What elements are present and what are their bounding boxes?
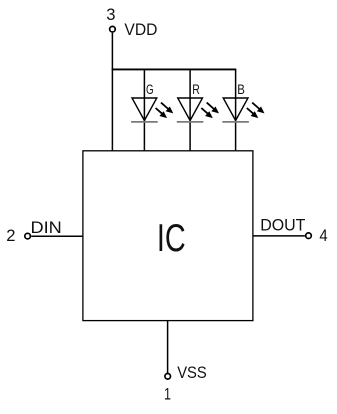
cathode bar R [177, 121, 204, 123]
svg-text:VDD: VDD [124, 20, 157, 39]
diode triangle G anode [132, 98, 157, 121]
svg-text:B: B [237, 82, 245, 98]
LED G [131, 82, 173, 122]
light arrow G2 [156, 108, 168, 118]
svg-text:VSS: VSS [177, 363, 207, 382]
svg-text:DOUT: DOUT [260, 216, 305, 235]
wire branch R [189, 69, 191, 150]
terminal pin 2 DIN [25, 233, 31, 239]
svg-text:R: R [192, 82, 200, 98]
wire branch G [143, 69, 145, 150]
svg-text:3: 3 [106, 5, 115, 24]
wire DIN horizontal [31, 235, 83, 237]
wire VDD bus horizontal [112, 68, 237, 70]
svg-text:DIN: DIN [31, 218, 62, 237]
diode triangle R anode [178, 98, 203, 121]
light arrow B1 [252, 103, 264, 114]
cathode bar G [131, 121, 158, 123]
cathode bar B [222, 121, 249, 123]
terminal pin 3 VDD [110, 26, 116, 32]
wire DOUT horizontal [253, 235, 305, 237]
LED R [177, 82, 219, 122]
light arrow B2 [247, 108, 258, 118]
svg-text:2: 2 [6, 226, 15, 245]
LED B [222, 82, 264, 122]
svg-text:1: 1 [164, 384, 171, 403]
terminal pin 4 DOUT [306, 233, 312, 239]
wire branch B [235, 69, 237, 150]
terminal pin 1 VSS [165, 374, 171, 380]
svg-text:4: 4 [319, 226, 327, 245]
light arrow G1 [161, 103, 173, 114]
wire VDD pin vertical [111, 33, 113, 151]
svg-text:G: G [146, 82, 154, 98]
svg-text:IC: IC [157, 217, 186, 260]
diode triangle B anode [223, 98, 248, 121]
wire VSS vertical [167, 321, 169, 373]
IC body U1 [83, 151, 253, 321]
light arrow R2 [201, 108, 213, 118]
light arrow R1 [207, 103, 219, 114]
